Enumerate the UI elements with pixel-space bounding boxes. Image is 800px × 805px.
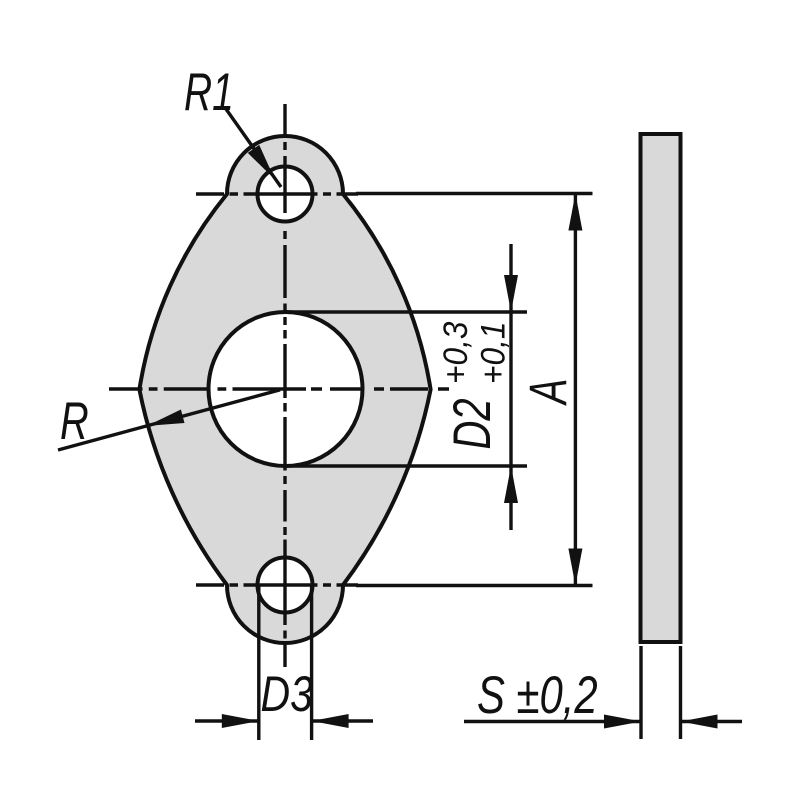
extension line D2 bottom	[286, 464, 528, 467]
extension line A bottom	[356, 584, 593, 587]
arrowhead A bottom	[568, 549, 582, 586]
dimension line S left	[464, 720, 641, 723]
extension line S left	[639, 646, 642, 739]
arrowhead R	[147, 410, 185, 426]
arrowhead A top	[568, 194, 582, 231]
horizontal centerline through bottom bolt hole	[196, 583, 358, 586]
arrowhead D3 right	[312, 714, 349, 728]
flange gasket outline (front view)	[139, 136, 430, 643]
arrowhead R1	[248, 145, 275, 179]
extension line D2 top	[286, 310, 528, 313]
top bolt hole D3	[258, 167, 313, 222]
vertical centerline	[283, 104, 286, 667]
svg-text:R: R	[60, 391, 89, 450]
extension line S right	[679, 646, 682, 739]
arrowhead S right	[681, 715, 718, 729]
dimension line S right	[681, 720, 743, 723]
leader line R	[58, 390, 280, 450]
arrowhead D2 bottom	[504, 466, 518, 503]
horizontal centerline through central hole	[109, 387, 449, 390]
leader line R1	[226, 109, 281, 187]
dimension line D3 right	[312, 719, 373, 722]
svg-text:R1: R1	[184, 62, 234, 121]
extension line A top	[356, 192, 593, 195]
svg-text:D3: D3	[261, 666, 314, 722]
bottom bolt hole D3	[258, 558, 313, 613]
dimension line A	[574, 194, 577, 586]
central hole D2	[209, 312, 363, 466]
svg-text:+0,1: +0,1	[473, 322, 511, 384]
svg-text:+0,3: +0,3	[436, 322, 474, 384]
arrowhead D2 top	[504, 275, 518, 312]
extension line D3 left	[257, 585, 260, 740]
dimension line D3 left	[195, 719, 259, 722]
svg-text:D2: D2	[443, 398, 502, 449]
arrowhead S left	[604, 715, 641, 729]
arrowhead D3 left	[222, 714, 259, 728]
extension line D3 right	[310, 585, 313, 740]
svg-text:A: A	[518, 379, 578, 407]
side view plate S	[641, 134, 681, 642]
svg-text:S ±0,2: S ±0,2	[477, 666, 598, 725]
dimension line D2	[509, 244, 512, 530]
horizontal centerline through top bolt hole	[196, 192, 358, 195]
